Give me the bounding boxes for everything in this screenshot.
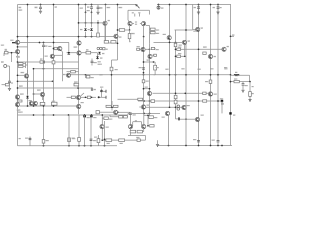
wire Q16 base [67, 52, 77, 54]
resistor R16 [111, 41, 116, 44]
label R54 [46, 140, 49, 141]
label D6 [100, 57, 102, 58]
wire [9, 83, 11, 85]
label R36 [146, 81, 149, 82]
junction [43, 61, 45, 63]
wire vertical bus x53 [53, 5, 55, 107]
wire cluster vertical [101, 89, 103, 98]
junction fuse tap [158, 4, 160, 6]
junction on V+ rail [40, 4, 42, 6]
transistor Q16 [77, 51, 81, 55]
junction on bottom rail left [104, 145, 106, 147]
junction on mid rail [230, 74, 232, 76]
wire vertical bus x218 upper [217, 5, 219, 141]
label neg supply text [18, 111, 23, 112]
wire y135 row [128, 135, 146, 137]
wire y52 right [82, 52, 98, 54]
resistor R7 [54, 47, 57, 49]
wire [129, 30, 131, 34]
resistor R31 [51, 102, 57, 105]
wire [23, 63, 26, 65]
transistor Q28 [208, 92, 212, 96]
resistor R62 [119, 116, 123, 118]
label D1 [80, 29, 82, 30]
junction [175, 92, 177, 94]
label C9 [94, 89, 96, 90]
wire C4 to ground [198, 8, 200, 11]
wire lower row y116 [110, 116, 128, 118]
junction [17, 74, 19, 76]
label C20 [193, 139, 196, 140]
wire bus x149 [149, 43, 151, 118]
power flag arrow [136, 5, 139, 9]
junction [53, 48, 55, 50]
junction [143, 88, 145, 90]
label R52 [136, 137, 139, 138]
wire stub [118, 111, 120, 113]
label R38 [205, 81, 208, 82]
transistor Q29 [141, 105, 145, 109]
transistor Q33 [195, 117, 199, 121]
label C13 [139, 67, 142, 68]
junction on bottom rail left [90, 145, 92, 147]
wire Q13 emitter lead [61, 50, 64, 52]
wire tail stub right [139, 14, 141, 17]
ground below C1 [39, 11, 42, 13]
wire vertical bus x111 lower [111, 60, 113, 108]
wire rail y101 [138, 100, 222, 102]
wire R65 lead [102, 117, 104, 119]
wire bus x105 from rail [105, 5, 107, 41]
wire [111, 107, 113, 110]
wire to Q33 base [180, 118, 196, 120]
wire R33 row [152, 48, 156, 50]
junction on mid rail [210, 74, 212, 76]
wire Q29 base stub [139, 106, 141, 108]
wire Q12 base row [4, 52, 16, 54]
wire to emitter resistors [146, 25, 150, 27]
resistor R23 [203, 52, 206, 54]
wire [85, 32, 87, 37]
junction [149, 100, 151, 102]
transistor Q22 [29, 102, 33, 106]
label pair note2 [135, 24, 137, 25]
capacitor C8 [42, 45, 45, 46]
label C22 [245, 85, 248, 86]
label C24 [198, 69, 201, 70]
junction on bottom rail left [78, 145, 80, 147]
label R17 [156, 29, 159, 30]
label Q37 [163, 34, 166, 35]
resistor R37 [203, 92, 206, 94]
junction [33, 93, 35, 95]
label [193, 31, 196, 32]
transistor Q2 [114, 34, 118, 38]
wire to C15 [120, 111, 130, 113]
ground zobel [241, 90, 244, 92]
transistor Q11 [16, 40, 20, 44]
junction [143, 100, 145, 102]
label Q13 [48, 46, 51, 47]
capacitor C20 [197, 141, 200, 142]
wire positive supply rail V+ right section [157, 4, 231, 6]
wire stub to x148 [144, 114, 148, 116]
label Q17 [62, 74, 66, 75]
wire x43 long bus [43, 47, 45, 146]
resistor R2 feedback [18, 63, 23, 65]
wire R17 lead [149, 28, 152, 30]
junction [175, 42, 177, 44]
junction x186 on bias line [185, 118, 187, 120]
capacitor C11 plate [105, 90, 107, 93]
wire corner x68 [68, 43, 70, 52]
input terminal [4, 65, 7, 68]
junction on V+ rail [217, 4, 219, 6]
wire lower bridge [106, 106, 118, 108]
diode D12 [177, 108, 180, 111]
wire [128, 20, 129, 22]
transistor Q25 [141, 47, 145, 51]
wire down to row [145, 136, 147, 141]
wire central bus x143 [143, 37, 145, 114]
junction on bottom rail right [217, 145, 219, 147]
junction [53, 36, 55, 38]
junction [117, 42, 119, 44]
wire C23 lead [91, 59, 93, 62]
wire y93 long row [153, 92, 209, 94]
wire Q10 base [18, 74, 25, 76]
wire from input jack [7, 65, 10, 67]
capacitor C5 plates [217, 7, 220, 8]
junction [169, 42, 171, 44]
junction [17, 61, 19, 63]
wire cluster row2 [99, 96, 107, 98]
junction [175, 106, 177, 108]
label Q29 [147, 105, 150, 106]
wire x33 bus [33, 69, 35, 106]
wire y62 jumper [144, 61, 154, 63]
capacitor C9 [91, 88, 92, 91]
resistor R59 [154, 54, 157, 56]
resistor R6 [4, 52, 8, 54]
resistor R66 vertical [68, 138, 71, 142]
resistor R46 [149, 116, 154, 119]
label Q15 [74, 46, 78, 47]
junction [198, 100, 200, 102]
junction on lower rail [84, 114, 86, 116]
junction on V+ rail [169, 4, 171, 6]
junction on mid rail [185, 74, 187, 76]
transistor Q27 [147, 91, 151, 95]
wire R21 right lead [181, 55, 185, 57]
wire y49 driver base row [185, 48, 222, 50]
label Q19 [37, 89, 41, 90]
label C16 [87, 117, 90, 118]
wire x222 stub [221, 101, 223, 113]
wire x91 bottom [90, 115, 92, 146]
label C23 [94, 62, 97, 63]
junction [85, 22, 87, 24]
junction on V+ rail [105, 4, 107, 6]
resistor R73 in bus x53 [52, 61, 55, 64]
resistor R20 [177, 48, 181, 50]
label C15 [133, 114, 136, 115]
junction y106 [33, 105, 35, 107]
label Q2 [119, 36, 121, 37]
wire [130, 133, 132, 136]
junction on mid rail [169, 74, 171, 76]
resistor R42 [106, 105, 111, 107]
resistor R17 [150, 28, 155, 30]
junction on bottom rail left [43, 145, 45, 147]
wire y81 row [18, 80, 53, 82]
transistor Q37 on x169 bus [167, 36, 171, 40]
junction on mid rail [217, 74, 219, 76]
wire [242, 86, 244, 90]
transistor Q31 [182, 105, 186, 109]
label C18 [93, 140, 96, 141]
wire cap C8 lead [43, 43, 45, 46]
label LS [252, 93, 254, 94]
label R3 [40, 58, 42, 59]
junction [33, 68, 35, 70]
wire [105, 41, 107, 43]
wire y107 row [146, 106, 183, 108]
label R10 [107, 7, 111, 8]
junction [111, 106, 113, 108]
label R61 [1, 45, 4, 46]
wire x84 bottom [84, 115, 86, 146]
label D2 [88, 29, 90, 30]
junction on bottom rail right [210, 145, 212, 147]
label R34 [156, 67, 159, 68]
wire y42 right [154, 41, 183, 43]
resistor R67 vertical [110, 67, 113, 71]
wire [17, 65, 20, 67]
wire [91, 32, 93, 37]
junction on lower rail [68, 114, 70, 116]
label R12 [131, 33, 135, 34]
transistor Q7 [196, 27, 200, 31]
capacitor C10 [100, 90, 103, 91]
label C17 [93, 117, 96, 118]
junction [17, 80, 19, 82]
wire [77, 86, 79, 88]
resistor R33 [151, 47, 154, 49]
wire bottom rail right segment [158, 145, 233, 147]
resistor R15 [104, 41, 108, 44]
label input [1, 61, 4, 62]
label R6 [5, 49, 7, 50]
capacitor C17 electrolytic [90, 115, 93, 117]
inductor L1 [234, 73, 239, 76]
label R69 [94, 137, 97, 138]
wire emitter branch y47 [18, 46, 28, 48]
resistor R29 [17, 100, 22, 102]
wire Q10 collector [27, 70, 29, 74]
resistor R47 [150, 125, 154, 127]
resistor R64 on y101 [203, 100, 207, 102]
wire Q6 emitter down [184, 45, 186, 57]
wire Q13 base row [54, 48, 58, 50]
junction on bottom rail right [221, 145, 223, 147]
capacitor C2 plates [97, 7, 100, 8]
wire Q35 collector [143, 113, 145, 124]
junction [143, 36, 145, 38]
label Q33 [201, 115, 204, 116]
resistor R50 [106, 139, 112, 142]
transistor Q10 [24, 74, 28, 78]
wire Q35 base up [141, 122, 143, 126]
junction [149, 113, 151, 115]
wire vertical bus x117 upper [117, 5, 119, 61]
label Q12 type [17, 57, 20, 58]
resistor R63 [123, 116, 127, 118]
label C10 [100, 87, 103, 88]
wire mid output rail y75 [67, 74, 231, 76]
wire vertical bus x218 lower [217, 142, 219, 145]
junction y106 [43, 105, 45, 107]
wire Q4 emitter down [143, 26, 145, 37]
wire vertical bus x186 [185, 5, 187, 146]
transistor Q34 lower pair [128, 125, 132, 129]
wire x98 bottom stub [97, 135, 99, 146]
wire y97 right [81, 96, 96, 98]
junction [78, 22, 80, 24]
resistor R34 vertical [154, 65, 157, 70]
resistor R13 [119, 29, 124, 32]
resistor R48 [130, 130, 135, 133]
wire [85, 12, 87, 23]
label R33 [156, 49, 159, 50]
label Q10 [21, 72, 25, 73]
diode D5 [98, 52, 101, 54]
wire vertical bus x169 [169, 5, 171, 108]
diode D3 [97, 47, 99, 49]
label Q4 tag [138, 12, 140, 13]
label Q6 [188, 40, 190, 41]
transistor Q36 [100, 125, 104, 129]
wire R20 right lead [181, 48, 185, 50]
wire y88 row [18, 87, 93, 89]
label Q28 [214, 94, 217, 95]
resistor R38 vertical [209, 80, 212, 83]
junction [101, 139, 103, 141]
resistor R43 [113, 105, 118, 107]
ground speaker [248, 100, 251, 102]
label pair note3 [135, 120, 137, 121]
junction [175, 55, 177, 57]
transistor Q26 [148, 54, 152, 58]
junction [117, 29, 119, 31]
wire join [25, 62, 27, 68]
junction on bottom rail right [185, 145, 187, 147]
junction [17, 36, 19, 38]
junction on V+ rail [117, 4, 119, 6]
wire diode D2 lead [91, 23, 93, 27]
wire y106 row [20, 105, 76, 107]
capacitor C1 plates [39, 7, 42, 8]
wire Q30 base row [99, 111, 113, 113]
junction [175, 48, 177, 50]
wire vertical bus x27 [27, 5, 29, 107]
node blob b2 [229, 112, 231, 114]
junction [78, 36, 80, 38]
junction on mid rail [143, 74, 145, 76]
wire [23, 65, 26, 67]
label F1 [55, 6, 57, 7]
junction [143, 113, 145, 115]
label R53 [72, 138, 75, 139]
transistor Q35 lower pair [142, 125, 146, 129]
diode D1 [84, 28, 87, 30]
label R70 [165, 69, 168, 70]
label C4 [194, 7, 196, 8]
label R35 [145, 87, 148, 88]
junction on bottom rail right [198, 145, 200, 147]
label Q3 tag [132, 12, 134, 13]
transistor Q30 [114, 110, 118, 114]
label pair note [135, 21, 137, 22]
junction [85, 96, 87, 98]
wire Q19 base [34, 93, 41, 95]
wire C5 to ground [217, 8, 219, 11]
label Q24 [81, 102, 84, 103]
transistor Q18 [15, 95, 19, 99]
label R21 [178, 53, 181, 54]
label D5 [102, 53, 104, 54]
resistor R21 [177, 55, 181, 57]
wire jog [154, 61, 156, 63]
label Q22 [29, 100, 32, 101]
label R24 [91, 77, 94, 78]
wire node row y36 [18, 36, 115, 38]
label Q7 [201, 27, 203, 28]
label Q8 [227, 46, 229, 47]
label R25 [19, 85, 23, 86]
transistor Q4 input pair [142, 22, 146, 26]
wire vertical bus x198 [198, 5, 200, 146]
wire Q35 emitter [143, 129, 145, 132]
wire jog x117-x111 [112, 59, 118, 61]
transistor Q8 output NPN [222, 47, 226, 51]
junction [17, 46, 19, 48]
wire diode D1 lead [85, 23, 87, 27]
junction [249, 81, 251, 83]
diode D11 [68, 52, 71, 54]
label R55 [224, 67, 227, 68]
junction [91, 96, 93, 98]
wire [53, 80, 54, 82]
transistor Q12 [16, 50, 20, 54]
label 8R [252, 86, 254, 87]
junction [85, 36, 87, 38]
wire Q32 down [168, 116, 170, 146]
wire y30 with R13 [118, 29, 130, 31]
wire step to diff collectors [128, 9, 149, 11]
label Q32 [162, 117, 165, 118]
label R4 [147, 59, 149, 60]
junction blob [98, 96, 100, 98]
wire x98 lower segment [97, 20, 99, 33]
label C1 [35, 7, 38, 9]
wire x79 bottom [78, 115, 80, 146]
junction [91, 36, 93, 38]
junction [27, 36, 29, 38]
wire [143, 131, 144, 133]
wire ground stem [157, 140, 159, 144]
wire central-left vertical bus x78 [78, 5, 80, 115]
